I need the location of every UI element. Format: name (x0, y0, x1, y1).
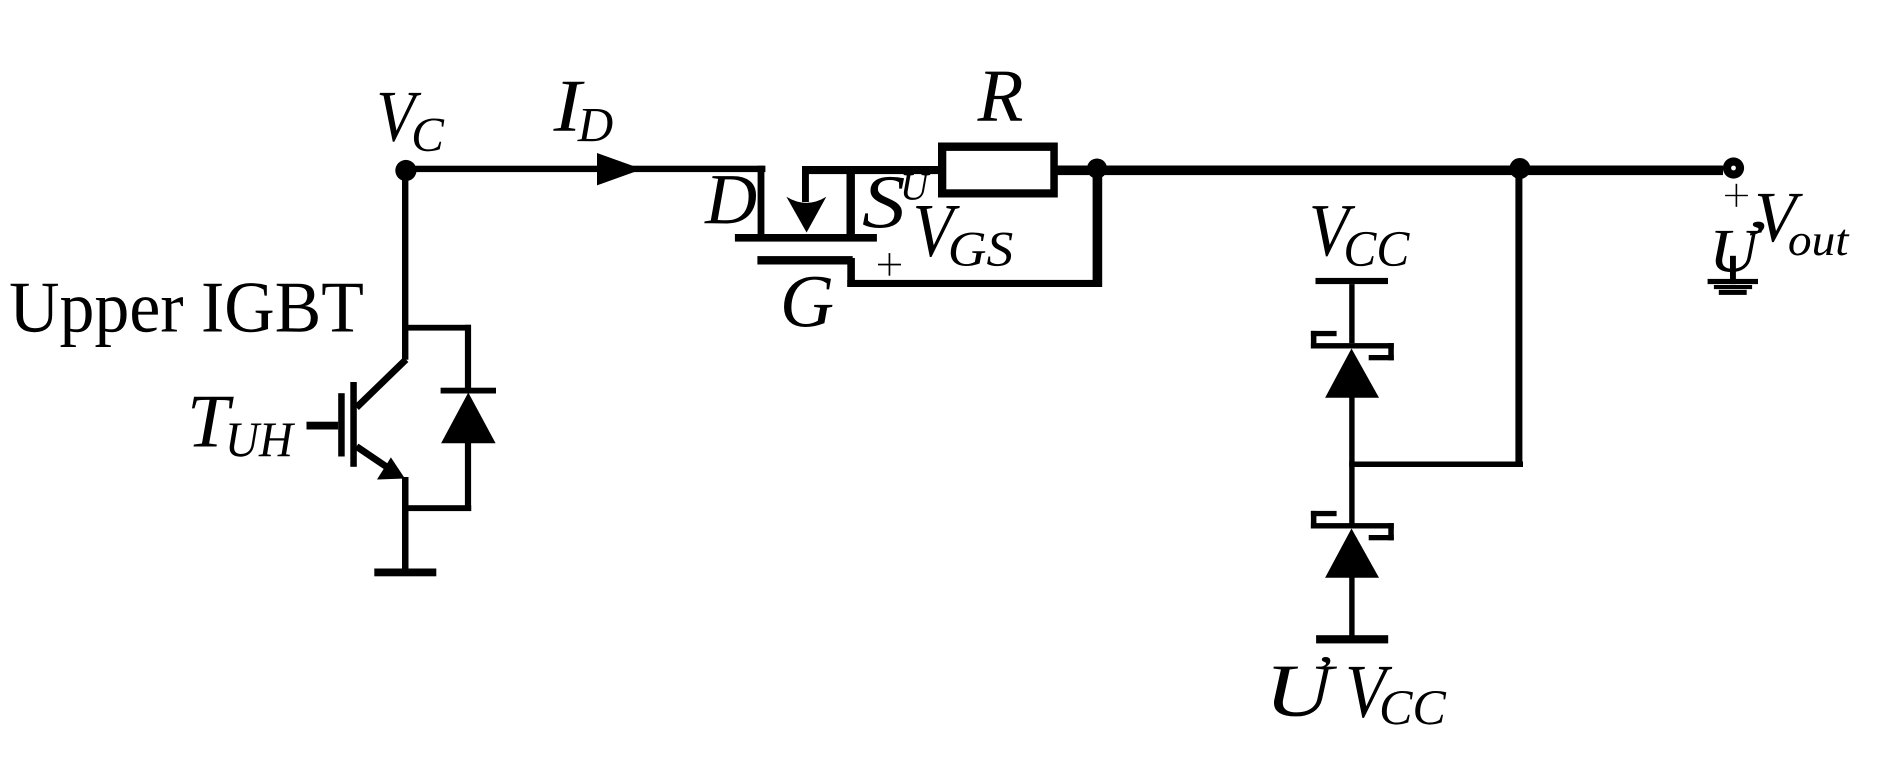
label V_out : V (1758, 194, 1803, 242)
ground bar under IGBT (374, 569, 436, 577)
node B: junction after R (1087, 159, 1107, 179)
wire: zener branch horizontal (1351, 462, 1523, 468)
MOSFET body arrowhead (786, 197, 826, 233)
wire: source rail to resistor (802, 166, 939, 174)
label T_UH : T (192, 397, 234, 447)
wire: V_C vertical down to IGBT collector (402, 166, 408, 360)
wire: Z1 stem bottom (1349, 392, 1354, 467)
label U-prime at ground : U (1715, 231, 1762, 272)
wire: emitter vertical (402, 477, 409, 571)
label V_GS : V (916, 206, 960, 257)
label V_C : V (380, 93, 422, 142)
MOSFET body arrow stem (802, 166, 809, 202)
label D (drain pin) (704, 176, 756, 223)
wire: diode bottom vertical (465, 440, 471, 511)
node A: V_C junction dot (395, 160, 416, 181)
label U-prime V_CC : U (1273, 667, 1337, 717)
zener Z2 cathode bar with hooks (1311, 511, 1337, 516)
zener Z1 triangle (1325, 349, 1379, 398)
MOSFET gate bar (757, 256, 852, 264)
label + (V_out polarity) (1725, 195, 1748, 196)
diode D1 triangle (441, 393, 496, 444)
label + (V_GS polarity) (878, 264, 901, 266)
label U superscript (904, 174, 931, 200)
wire: diode top vertical (465, 325, 471, 391)
resistor R body (938, 143, 1058, 198)
IGBT emitter slant (357, 447, 393, 471)
IGBT gate lead (307, 422, 339, 430)
transistor T_UH (IGBT) collector slant (357, 360, 407, 408)
wire: V_GS loop right vertical (1093, 166, 1103, 287)
label V_CC upper : V (1312, 206, 1355, 256)
label V_CC upper : CC sub (1346, 232, 1410, 266)
label V_C : C sub (414, 118, 444, 151)
label G (gate pin) (784, 277, 832, 327)
wire: main rail right (1056, 166, 1723, 176)
IGBT gate bar (338, 393, 345, 456)
wire: V_GS loop bottom (847, 280, 1101, 287)
label R (977, 72, 1022, 121)
wire: Z2 stem bottom (1349, 572, 1354, 638)
label I_D : D sub (577, 109, 612, 141)
wire: zener branch vertical (1515, 169, 1522, 467)
label U-prime V_CC : apostrophe (1320, 657, 1331, 669)
node C: zener branch junction (1509, 158, 1530, 179)
wire: gate lead down (847, 258, 855, 287)
label T_UH : UH sub (229, 423, 295, 456)
label U-prime V_CC : V (1349, 667, 1393, 718)
label I_D : I (553, 82, 584, 131)
wire: IGBT bottom branch to diode (402, 505, 471, 511)
ground symbol (1730, 256, 1736, 284)
terminal V_out (open circle) (1723, 157, 1744, 178)
wire main rail left (Vc to MOSFET drain) (405, 166, 765, 172)
MOSFET source vertical (847, 166, 855, 234)
wire: Z2 stem top (1349, 462, 1354, 524)
label V_out : out sub (1789, 230, 1849, 256)
IGBT emitter arrowhead (377, 457, 405, 479)
diode D1 cathode bar (441, 388, 496, 394)
MOSFET channel bar (735, 234, 877, 242)
IGBT body bar (350, 382, 357, 467)
label V_GS : GS sub (951, 232, 1013, 266)
label Upper IGBT (11, 283, 363, 347)
label U-prime V_CC : CC sub (1382, 691, 1446, 725)
label S (source pin) (863, 177, 904, 228)
transistor Q1 (sense MOSFET) drain vertical (758, 166, 765, 234)
current arrow I_D (597, 153, 642, 185)
wire: Z1 stem top (1349, 284, 1354, 343)
zener Z2 triangle (1325, 529, 1379, 578)
label U-prime at ground : apostrophe (1750, 222, 1764, 236)
zener Z1 cathode bar with hooks (1311, 331, 1337, 336)
wire: IGBT top branch to diode (402, 325, 471, 331)
zener Z1 top terminal bar (1316, 278, 1389, 284)
zener Z2 bottom terminal bar (1316, 635, 1388, 643)
